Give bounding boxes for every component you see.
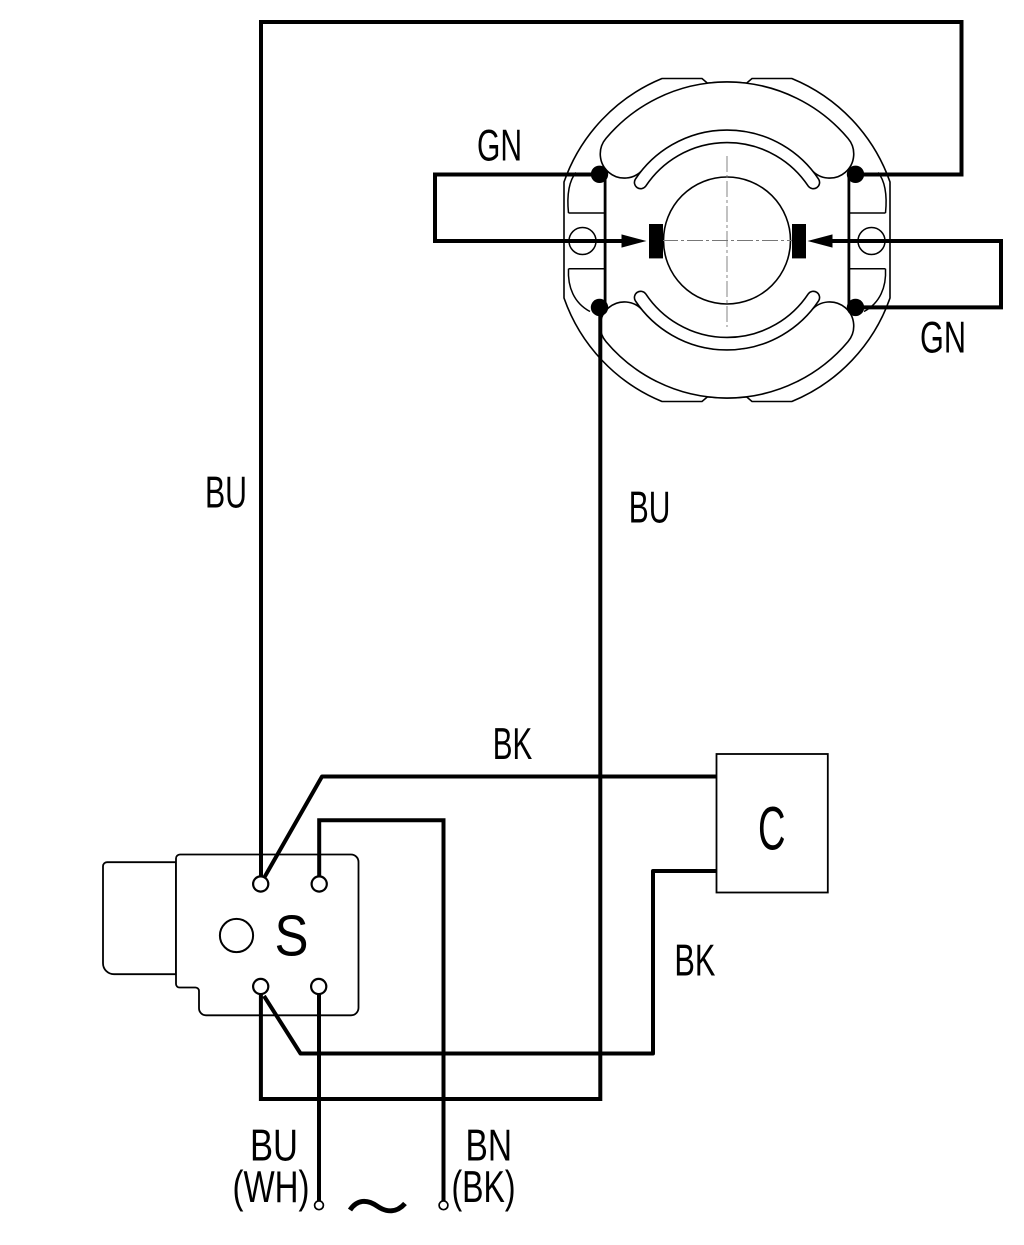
field coil top outer turn [600,82,853,178]
centerline horizontal [662,240,792,242]
svg-text:GN: GN [477,122,522,171]
slot hook curve upper-right [878,173,886,214]
rotor (armature) [664,177,791,304]
svg-text:GN: GN [920,314,966,363]
switch terminal top-left [253,876,268,891]
slot hook curve lower-right [864,269,886,312]
svg-text:S: S [275,904,309,968]
AC symbol ~ [350,1201,405,1210]
slot hook curve lower-left [568,269,590,312]
brush left [649,224,663,258]
junction dot top-right [847,166,864,183]
pole edge right [848,174,851,307]
junction dot bottom-right [847,299,864,316]
mains lead terminal right [439,1201,448,1210]
motor stator outline [564,79,890,402]
svg-text:BK: BK [493,720,533,769]
centerline vertical [726,156,728,327]
wire BN from switch to mains lead [319,820,443,1201]
switch trigger [103,862,176,974]
field coil bottom inner turn [634,291,819,350]
stator slot line upper-left [569,212,606,214]
slot hook curve upper-left [568,173,576,214]
stator slot line upper-right [849,212,886,214]
wire BU from motor top-right terminal to switch (around page) [261,22,962,877]
wire GN right (field to right brush) [832,241,1001,307]
arrowhead left brush [622,234,647,247]
stator slot line lower-left [569,268,606,270]
mounting hole left [569,228,596,255]
field coil bottom outer turn [600,302,853,398]
switch terminal bottom-right [311,979,326,994]
wire BK switch to capacitor [264,777,717,879]
svg-text:BU: BU [205,469,247,518]
junction dot top-left [591,166,608,183]
junction dot bottom-left [591,299,608,316]
stator slot line lower-right [849,268,886,270]
svg-text:BK: BK [674,937,715,986]
svg-text:(WH): (WH) [233,1163,310,1212]
brush right [792,224,806,258]
svg-text:C: C [758,794,786,863]
wire GN left (field to left brush) [435,175,622,242]
mains lead terminal left [315,1201,324,1210]
pole edge left [604,174,607,307]
arrowhead right brush [808,234,833,247]
switch terminal top-right [312,876,327,891]
svg-text:BU: BU [629,484,671,533]
wire BU from motor bottom-left terminal to switch [261,307,600,1099]
wire BK capacitor to switch [264,871,717,1054]
wire BU(WH) from switch to mains lead [317,995,321,1202]
capacitor C box [717,754,828,893]
mounting hole right [858,228,885,255]
switch terminal bottom-left [253,979,268,994]
field coil top inner turn [634,130,819,189]
switch actuator circle [220,919,253,952]
svg-text:(BK): (BK) [452,1163,516,1212]
switch S body [176,855,359,1016]
